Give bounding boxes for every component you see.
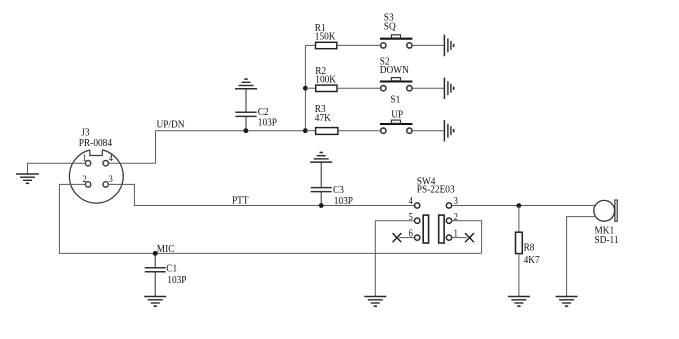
wire R2 to S2 — [337, 87, 381, 89]
ground (above C3, inverted) — [310, 153, 332, 163]
S1 label — [390, 94, 400, 106]
svg-text:1: 1 — [83, 153, 87, 164]
wire pin1 to ground — [28, 163, 86, 174]
MK1 value SD-11 — [594, 235, 618, 247]
wire SW4 pin2 to right edge down to MIC line — [452, 221, 482, 254]
capacitor C1 — [145, 253, 166, 296]
svg-text:MIC: MIC — [157, 244, 175, 256]
J3 pin number 3 — [109, 174, 114, 185]
SW4 actuator left — [423, 215, 428, 243]
R1 label — [315, 23, 326, 35]
svg-text:4: 4 — [409, 197, 414, 208]
node bus R3 junction — [303, 128, 308, 133]
R1 value 150K — [315, 31, 336, 43]
SW4 pin number 2 — [454, 212, 459, 223]
net label UP/DN — [157, 119, 186, 131]
wire S2 to ground — [412, 87, 444, 89]
svg-text:3: 3 — [109, 174, 114, 185]
J3 label — [81, 127, 89, 139]
SW4 pin number 1 — [454, 229, 459, 240]
R3 value 47K — [315, 112, 332, 124]
R2 label — [315, 65, 326, 77]
wire pin2 to MIC line — [59, 184, 481, 253]
SW4 pin number 6 — [409, 229, 414, 240]
J3 pin 1 circle — [85, 161, 90, 166]
switch S1 — [380, 120, 413, 133]
C1 value 103P — [167, 274, 186, 286]
svg-text:1: 1 — [454, 229, 459, 240]
J3 pin number 4 — [109, 153, 114, 164]
capacitor C3 — [311, 162, 332, 205]
R8 value 4K7 — [524, 254, 540, 266]
C3 value 103P — [334, 195, 353, 207]
svg-text:103P: 103P — [258, 117, 277, 129]
node R8 junction — [517, 203, 522, 208]
ground (right of S1) — [444, 120, 453, 142]
wire MK1 bottom terminal to ground — [567, 217, 596, 297]
svg-text:4: 4 — [109, 153, 114, 164]
net label MIC — [157, 244, 175, 256]
wire bus vertical — [304, 45, 306, 130]
switch SW4 pin 3 circle — [446, 203, 451, 208]
ground (left of J3) — [16, 174, 39, 183]
SW4 pin number 3 — [454, 197, 459, 208]
wire SW4 pin3 to R8 node to MK1 — [452, 205, 595, 207]
wire S3 to ground — [412, 44, 444, 46]
R3 label — [315, 104, 326, 116]
wire pin3 to PTT line — [108, 184, 414, 205]
SW4 actuator right — [439, 215, 444, 243]
SW4 pin number 5 — [409, 212, 414, 223]
svg-text:SQ: SQ — [384, 21, 397, 33]
svg-text:150K: 150K — [315, 31, 336, 43]
svg-text:PR-0084: PR-0084 — [79, 137, 112, 149]
J3 pin 4 circle — [103, 161, 108, 166]
svg-text:C1: C1 — [166, 263, 177, 275]
wire node down to R8 — [518, 206, 520, 233]
capacitor C2 — [235, 89, 256, 131]
J3 pin 2 circle — [85, 182, 90, 187]
C1 label — [166, 263, 177, 275]
node C1 junction — [153, 251, 158, 256]
S3 label — [384, 12, 394, 24]
svg-text:5: 5 — [409, 212, 414, 223]
S2 label — [380, 56, 390, 68]
svg-text:SD-11: SD-11 — [594, 235, 618, 247]
wire bus to R1 — [305, 44, 315, 46]
svg-text:47K: 47K — [315, 112, 332, 124]
connector J3 circle — [69, 148, 123, 204]
switch SW4 pin 1 circle — [446, 235, 451, 240]
wire R1 to S3 — [337, 44, 381, 46]
switch S3 — [380, 35, 413, 48]
svg-text:100K: 100K — [315, 74, 336, 86]
switch SW4 pin 5 circle — [415, 218, 420, 223]
no-connect X at SW4 pin1 — [465, 233, 474, 242]
microphone MK1 — [594, 200, 617, 221]
wire R8 to ground — [518, 254, 520, 297]
SW4 pin number 4 — [409, 197, 414, 208]
SW4 label — [417, 176, 436, 188]
ground (below SW4) — [364, 297, 386, 307]
svg-text:S1: S1 — [390, 94, 400, 106]
wire SW4 pin6 to X — [399, 237, 415, 239]
svg-text:UP: UP — [391, 109, 403, 121]
SW4 value PS-22E03 — [417, 184, 455, 196]
J3 value PR-0084 — [79, 137, 112, 149]
svg-text:103P: 103P — [334, 195, 353, 207]
node C3 junction — [319, 203, 324, 208]
svg-text:6: 6 — [409, 229, 414, 240]
MK1 label — [594, 225, 614, 237]
resistor R1 — [316, 42, 337, 48]
J3 pin number 1 — [83, 153, 87, 164]
switch SW4 pin 2 circle — [446, 218, 451, 223]
svg-text:103P: 103P — [167, 274, 186, 286]
C3 label — [333, 184, 344, 196]
J3 pin number 2 — [83, 174, 87, 185]
wire S1 to ground — [412, 130, 444, 132]
svg-text:PTT: PTT — [232, 195, 249, 207]
S1 value UP — [391, 109, 403, 121]
wire UP/DN line C2 to bus — [246, 130, 306, 132]
node C2 junction — [244, 128, 249, 133]
S2 value DOWN — [380, 64, 410, 76]
ground (below C1) — [144, 297, 166, 307]
svg-text:4K7: 4K7 — [524, 254, 540, 266]
ground (below R8) — [508, 297, 530, 307]
node bus R2 junction — [303, 86, 308, 91]
svg-text:R8: R8 — [524, 242, 535, 254]
switch SW4 pin 4 circle — [415, 203, 420, 208]
C2 value 103P — [258, 117, 277, 129]
svg-text:UP/DN: UP/DN — [157, 119, 186, 131]
ground (below MK1) — [556, 297, 578, 307]
svg-text:DOWN: DOWN — [380, 64, 410, 76]
resistor R2 — [316, 85, 337, 91]
R2 value 100K — [315, 74, 336, 86]
svg-text:2: 2 — [454, 212, 459, 223]
ground (above C2, inverted) — [235, 79, 257, 89]
wire SW4 pin1 to X — [452, 237, 467, 239]
C2 label — [258, 106, 269, 118]
switch SW4 pin 6 circle — [415, 235, 420, 240]
wire pin4 to UP/DN line — [108, 131, 246, 164]
wire R3 to S1 — [338, 130, 381, 132]
net label PTT — [232, 195, 249, 207]
R8 label — [524, 242, 535, 254]
resistor R3 — [316, 128, 338, 135]
wire bus to R3 — [305, 130, 315, 132]
svg-text:2: 2 — [83, 174, 87, 185]
J3 pin 3 circle — [103, 182, 108, 187]
ground (right of S2) — [444, 78, 453, 100]
S3 value SQ — [384, 21, 397, 33]
wire bus to R2 — [305, 87, 315, 89]
wire SW4 left edge down to ground — [374, 221, 376, 297]
ground (right of S3) — [444, 35, 453, 57]
no-connect X at SW4 pin6 — [393, 233, 402, 242]
svg-text:C3: C3 — [333, 184, 344, 196]
resistor R8 — [516, 232, 523, 253]
switch S2 — [380, 78, 413, 91]
svg-text:PS-22E03: PS-22E03 — [417, 184, 455, 196]
wire SW4 pin5 to left edge — [375, 220, 414, 222]
